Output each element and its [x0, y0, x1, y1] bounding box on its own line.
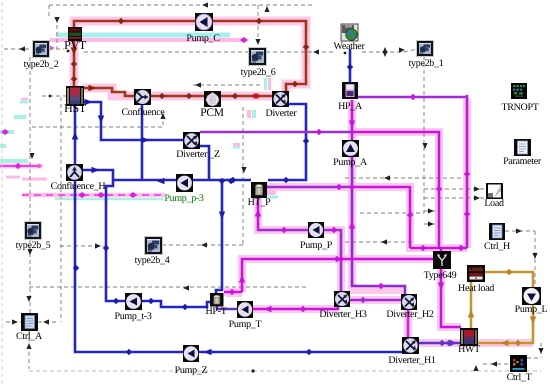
svg-text:TRNOPT: TRNOPT [501, 102, 538, 113]
svg-text:PCM: PCM [200, 107, 223, 119]
pink band top [50, 38, 244, 42]
magenta pipes [351, 100, 354, 140]
wire HP-T-out bus to Type649 left inlet [242, 259, 433, 292]
TRNOPT [511, 83, 527, 99]
svg-text:HST: HST [64, 101, 87, 115]
top dashed rail [49, 4, 315, 6]
wire Diverter_H2 to Pump_A [352, 157, 405, 294]
violet HP-T to Pump_T [217, 306, 237, 309]
wire HP-T out [224, 291, 242, 294]
Diverter [272, 91, 289, 107]
svg-text:HP_A: HP_A [338, 101, 363, 112]
svg-text:PVT: PVT [64, 38, 87, 52]
Ctrl_T [510, 355, 527, 372]
Diverter_H2 [401, 294, 417, 310]
HP-T [210, 293, 224, 307]
svg-text:type2b_6: type2b_6 [241, 67, 276, 78]
halo HT_P out y187 [267, 187, 467, 248]
halo y132 line right part + x439 [352, 132, 439, 248]
svg-text:Pump_p-3: Pump_p-3 [164, 193, 204, 204]
type2b_5 [24, 221, 42, 240]
Pump_Z [183, 345, 199, 362]
svg-text:HP-T: HP-T [205, 306, 226, 317]
Pump_A [342, 140, 359, 157]
Pump_C [195, 13, 213, 31]
type2b_1 [416, 40, 434, 57]
svg-text:type2b_2: type2b_2 [24, 59, 59, 70]
halo of brown collector loop [74, 21, 306, 92]
Parameter [514, 139, 531, 156]
wire Pump_L to HWT [477, 304, 533, 343]
svg-text:Diverter _Z: Diverter _Z [176, 149, 220, 160]
cyan band under it [55, 198, 163, 201]
svg-text:Parameter: Parameter [503, 156, 542, 167]
svg-text:Pump_C: Pump_C [186, 33, 220, 44]
wire Weather to HP_A [349, 49, 352, 82]
wire bus to Type649 inlet [440, 248, 443, 252]
wire Confluence to PCM to Diverter [150, 95, 272, 98]
wire Diverter_H3 to Pump_P [323, 230, 341, 291]
svg-text:Diverter_H3: Diverter_H3 [319, 309, 367, 320]
svg-text:Pump_t-3: Pump_t-3 [114, 311, 151, 322]
magenta decor centers [22, 194, 165, 196]
svg-text:Ctrl_A: Ctrl_A [16, 331, 43, 342]
wire Confluence_H to Pump_t-3 [82, 170, 125, 301]
Ctrl_H [489, 223, 505, 240]
wire node to Type649 riser x467 [466, 95, 469, 248]
wire Type649 top bus [410, 247, 467, 250]
halo HT_P bottom pump_p loop [258, 200, 341, 291]
svg-text:Ctrl_H: Ctrl_H [484, 241, 510, 252]
svg-text:Pump_Z: Pump_Z [175, 365, 208, 376]
svg-text:HT_P: HT_P [248, 197, 271, 208]
wire HWT to Heat load [470, 282, 473, 329]
HT_P [251, 182, 267, 198]
wire Confluence_H to HST [74, 106, 77, 164]
wire PVT-out to Pump_C to Diverter (collector supply loop) [74, 21, 306, 92]
svg-text:LOAD: LOAD [469, 267, 483, 273]
svg-text:Pump_P: Pump_P [300, 240, 333, 251]
HST [66, 86, 84, 106]
halo H3-H2, H2-H1 [350, 296, 402, 304]
svg-text:type2b_1: type2b_1 [409, 58, 444, 69]
svg-text:Type649: Type649 [424, 270, 457, 281]
Diverter_H1 [402, 337, 419, 354]
wire Diverter_H3 to Pump_T [253, 305, 338, 309]
wire Diverter to HT_P [268, 104, 306, 180]
Pump_t-3 [125, 293, 142, 310]
svg-text:HWT: HWT [458, 344, 480, 355]
svg-text:Diverter_H1: Diverter_H1 [388, 355, 436, 366]
wire HP_A out [358, 96, 467, 99]
purple H2-H1 [407, 309, 410, 337]
svg-text:Confluence: Confluence [121, 107, 165, 118]
wire Type649 to HWT [441, 269, 461, 327]
svg-text:type2b_4: type2b_4 [135, 255, 170, 266]
cyan band top [56, 33, 230, 38]
wire HP_A to Pump_A [351, 100, 354, 140]
halo type649 down to HWT [441, 269, 461, 327]
type2b_6 [248, 47, 267, 66]
Pump_T [237, 301, 253, 318]
Ctrl_A [21, 313, 38, 331]
svg-text:Diverter: Diverter [266, 108, 298, 119]
violet H1 to HWT [419, 342, 461, 345]
gold loop [471, 272, 533, 343]
HWT [460, 328, 478, 346]
Heat load [467, 265, 485, 282]
wire Pump_p-3 bus to HT_P [113, 179, 251, 182]
PVT [68, 27, 82, 41]
svg-text:Heat load: Heat load [458, 283, 494, 294]
Type649 [433, 251, 451, 269]
Load [486, 183, 503, 199]
halo x467 vertical [463, 99, 471, 248]
type2b_2 [32, 40, 50, 58]
halo HP_A down / Pump_A column [352, 100, 405, 290]
svg-text:Confluence_H: Confluence_H [51, 181, 106, 192]
svg-text:Ctrl_T: Ctrl_T [507, 372, 532, 383]
Weather [341, 24, 358, 41]
wire Pump_P inlet elbow [257, 229, 308, 232]
Diverter_H3 [334, 291, 350, 307]
wire pump bus to HP-T [216, 181, 222, 293]
wire HST to Diverter_Z [84, 102, 183, 140]
svg-text:type2b_5: type2b_5 [16, 240, 51, 251]
blue pipes [75, 49, 402, 352]
magenta decor line left-middle with halo [22, 193, 165, 198]
wire Pump_Z return: Diverter_H1 to Confluence_H [75, 180, 402, 352]
svg-text:Load: Load [484, 198, 504, 209]
Confluence [134, 89, 151, 105]
Pump_P [308, 222, 324, 238]
halo y259 bus [242, 259, 433, 292]
wire HT_P out [267, 186, 353, 189]
wire Pump_t-3 to HP-T [142, 301, 211, 307]
Pump_p-3 [176, 174, 193, 192]
small left edge fragments [14, 115, 26, 119]
wire HT_P-out right section to bus [352, 187, 410, 248]
halo HWT row to gold riser [419, 339, 533, 347]
svg-text:Pump_L: Pump_L [515, 304, 548, 315]
purple H3-H2 [350, 299, 402, 302]
wire node A to Type649 riser x439 [352, 132, 439, 248]
svg-text:Diverter_H2: Diverter_H2 [386, 309, 434, 320]
wire Confluence down to pump bus [141, 105, 144, 180]
svg-text:Pump_A: Pump_A [333, 157, 368, 168]
brown collector loop [74, 21, 306, 96]
wire HST to Confluence [84, 88, 135, 96]
Diverter_Z [183, 132, 200, 149]
HP_A [342, 82, 358, 99]
PCM [204, 91, 221, 107]
wire Pump_P to HT_P [257, 198, 260, 231]
wire Heat load to Pump_L [485, 272, 533, 287]
Pump_L [522, 287, 541, 305]
purple segment diverterZ to pumpA column [200, 131, 352, 134]
svg-text:Weather: Weather [334, 41, 366, 52]
halo HP-T up-right [226, 289, 242, 297]
svg-text:Pump_T: Pump_T [229, 319, 262, 330]
Confluence_H [66, 164, 83, 181]
wire Diverter_Z to pump bus [200, 146, 209, 181]
type2b_4 [144, 236, 163, 255]
wire PVT to HST [73, 40, 76, 86]
halo pump_T inlet [253, 305, 338, 313]
